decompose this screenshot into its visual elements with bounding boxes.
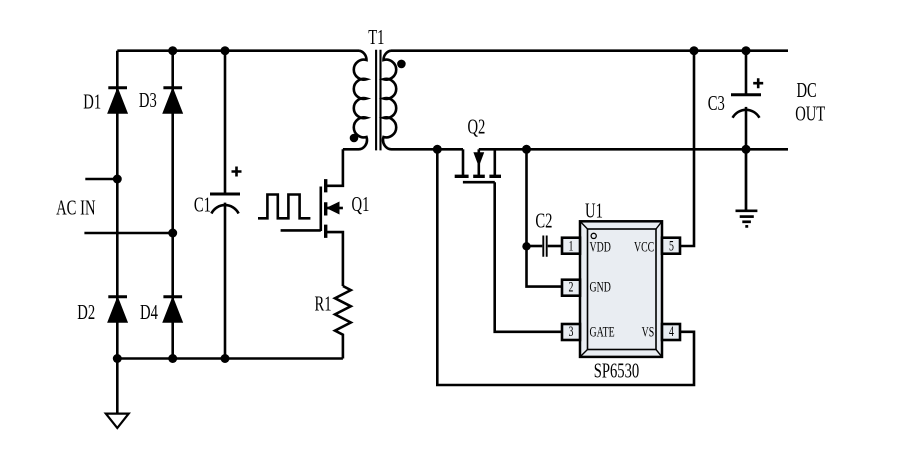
capacitor C2 <box>527 236 563 257</box>
wire Q1 source <box>326 232 343 286</box>
node AC stub top junction <box>113 175 122 184</box>
transformer T1 secondary winding <box>383 51 463 150</box>
diode D4 <box>163 297 182 322</box>
transistor Q1 <box>321 179 343 238</box>
svg-text:2: 2 <box>569 279 574 295</box>
svg-text:T1: T1 <box>368 25 384 48</box>
ground (AC side arrow) <box>106 414 129 428</box>
pin 1 box <box>562 238 580 254</box>
wire VDD branch vertical <box>527 149 563 286</box>
op-amp U1 body (SP6530) <box>580 221 662 357</box>
wire bridge right vertical <box>171 51 174 359</box>
node C2 junction <box>522 242 530 250</box>
svg-text:D1: D1 <box>83 90 101 113</box>
node bottom rail junction at C1 <box>221 354 230 363</box>
wire bridge left vertical <box>116 51 119 414</box>
node AC stub bottom junction <box>168 229 177 238</box>
transformer T1 core <box>376 50 380 151</box>
svg-text:R1: R1 <box>314 292 331 315</box>
wire Q2 source rail to output <box>479 148 788 151</box>
svg-text:U1: U1 <box>585 199 603 222</box>
transistor Q2 <box>455 149 501 182</box>
diode D3 <box>163 88 182 113</box>
svg-text:D3: D3 <box>139 88 157 111</box>
transformer secondary polarity dot <box>397 60 406 69</box>
wire AC input stub top <box>85 178 117 181</box>
svg-text:D4: D4 <box>140 300 158 323</box>
wire Q1 drain <box>326 149 343 186</box>
svg-text:VCC: VCC <box>634 239 654 255</box>
node top rail junction at VCC <box>690 46 699 55</box>
wire top rail (bridge output to transformer primary) <box>117 49 359 52</box>
pin 2 box <box>562 280 580 296</box>
svg-text:Q2: Q2 <box>467 115 485 138</box>
svg-text:OUT: OUT <box>795 102 825 125</box>
capacitor C3 <box>731 51 763 150</box>
pin 4 box <box>662 324 680 340</box>
pin 5 box <box>662 238 680 254</box>
capacitor C1 <box>210 51 242 359</box>
svg-text:C2: C2 <box>535 209 552 232</box>
svg-text:3: 3 <box>569 323 574 339</box>
wire VCC to top rail <box>680 51 694 246</box>
wire bottom rail <box>117 357 343 360</box>
node bottom rail junction at D4 <box>168 354 177 363</box>
svg-text:DC: DC <box>796 78 816 101</box>
svg-text:4: 4 <box>669 323 674 339</box>
PWM waveform <box>258 195 310 219</box>
wire AC input stub bottom <box>84 232 172 235</box>
svg-text:D2: D2 <box>77 300 95 323</box>
node top rail junction at D3 <box>168 46 177 55</box>
svg-text:1: 1 <box>569 238 574 254</box>
diode D2 <box>108 297 127 322</box>
node bottom rail junction at D2 <box>113 354 122 363</box>
ground (output earth) <box>736 149 758 226</box>
svg-text:VS: VS <box>642 324 655 340</box>
svg-text:Q1: Q1 <box>352 192 370 215</box>
svg-text:C3: C3 <box>708 91 725 114</box>
node top rail junction at C3 <box>742 46 751 55</box>
diode D1 <box>108 88 127 113</box>
svg-text:C1: C1 <box>194 193 211 216</box>
svg-text:GATE: GATE <box>589 324 614 340</box>
transformer T1 primary winding <box>343 51 367 150</box>
pin 3 box <box>562 324 580 340</box>
resistor R1 <box>335 286 351 359</box>
wire output top rail <box>391 49 788 52</box>
node rail junction at VDD branch <box>522 145 531 154</box>
node secondary low junction <box>433 145 442 154</box>
wire VS loop <box>437 149 694 385</box>
transformer primary polarity dot <box>350 134 359 143</box>
node bottom rail junction at C3 <box>742 145 751 154</box>
wire Q1 gate lead <box>281 229 321 232</box>
wire Q2 gate to pin3 <box>495 182 562 332</box>
svg-text:AC IN: AC IN <box>56 196 95 219</box>
svg-text:5: 5 <box>669 238 674 254</box>
svg-text:GND: GND <box>589 279 610 295</box>
node top rail junction at C1 <box>221 46 230 55</box>
svg-text:VDD: VDD <box>589 239 610 255</box>
svg-text:SP6530: SP6530 <box>594 359 639 382</box>
